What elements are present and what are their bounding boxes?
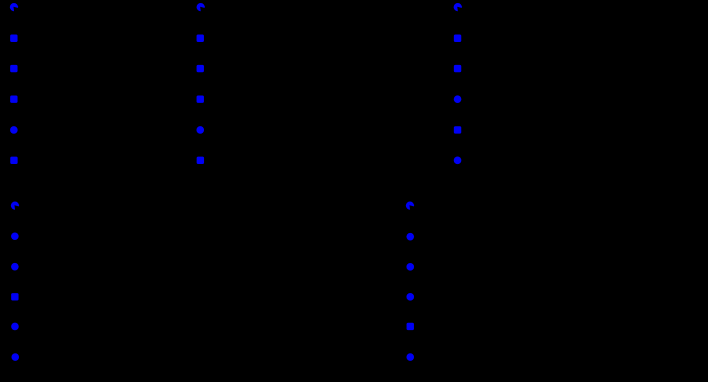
bottom list column A — [11, 202, 20, 211]
top list column C — [454, 3, 463, 12]
bottom list column D — [406, 202, 415, 211]
top list column B — [197, 3, 206, 12]
top list column A — [10, 3, 19, 12]
